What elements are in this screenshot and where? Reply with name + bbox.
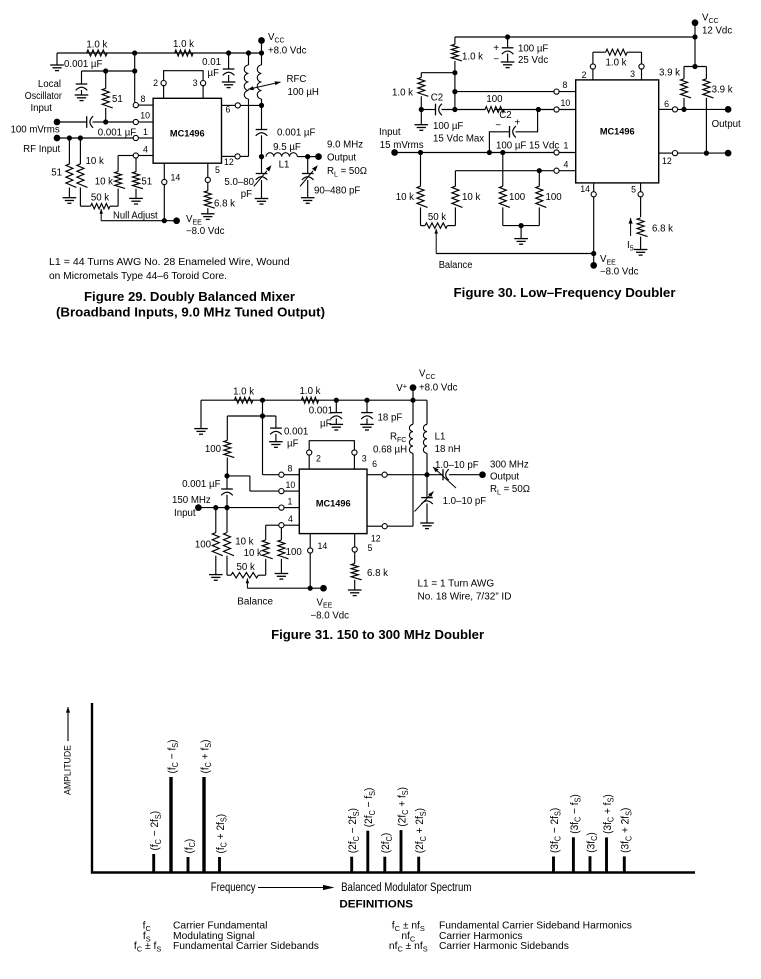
- node (fig31 rail C): [364, 398, 369, 403]
- svg-text:1.0 k: 1.0 k: [233, 387, 254, 398]
- ground (6.8k fig31): [348, 590, 362, 596]
- label RF Input: [23, 144, 60, 155]
- capacitor 100uF 25Vdc: [493, 37, 548, 68]
- svg-text:12: 12: [662, 156, 672, 166]
- node (3.9k b bottom): [704, 151, 709, 156]
- svg-text:1.0 k: 1.0 k: [173, 39, 194, 50]
- terminal: output bottom fig30: [725, 150, 732, 157]
- wire: input line fig31: [198, 507, 278, 509]
- svg-text:nfC ± nfS: nfC ± nfS: [389, 941, 428, 953]
- node (fig31 rail A): [260, 398, 265, 403]
- svg-text:(2fC + fS): (2fC + fS): [396, 787, 410, 827]
- label Balance fig31: [237, 597, 273, 608]
- resistor 1.0k (fig30 left): [392, 73, 428, 110]
- svg-text:5: 5: [631, 185, 636, 195]
- wire: 100 to pin10: [495, 109, 554, 111]
- svg-text:RFC: RFC: [390, 432, 406, 444]
- wire: LO input line: [57, 121, 106, 123]
- wire: pin4 branch fig31: [266, 524, 279, 526]
- pin 4 (Fig30): [554, 160, 576, 174]
- resistor 10k (null network): [95, 156, 125, 207]
- svg-text:9.5 µF: 9.5 µF: [273, 142, 301, 153]
- svg-text:L1: L1: [435, 432, 446, 443]
- definition nfC+nfS: [389, 941, 569, 953]
- inductor RFC right winding: [257, 53, 261, 105]
- ground (C2 left): [415, 110, 429, 131]
- node (fig30 pin10 rail B): [452, 107, 457, 112]
- node (pin14/VEE junction): [162, 218, 167, 223]
- node (fig31 in 100 tap): [213, 505, 218, 510]
- svg-text:−8.0 Vdc: −8.0 Vdc: [311, 610, 350, 621]
- svg-text:MC1496: MC1496: [316, 499, 351, 509]
- pin 3 (Fig29): [193, 78, 206, 88]
- wire: LO bypass rail: [82, 70, 135, 72]
- pin 3 (Fig31): [352, 450, 367, 469]
- svg-text:5: 5: [215, 165, 220, 175]
- svg-text:V+: V+: [396, 381, 407, 394]
- chart y-axis: [91, 703, 93, 874]
- node (C2b right junction): [536, 107, 541, 112]
- capacitor C2 100uF: [421, 93, 484, 145]
- svg-text:1: 1: [143, 127, 148, 137]
- label Balanced Modulator Spectrum: [341, 882, 471, 894]
- wire: pin2 stub: [163, 86, 165, 99]
- label Local Oscillator Input: [25, 79, 63, 114]
- svg-text:2: 2: [582, 70, 587, 80]
- wire: pin8 drop from rail: [134, 53, 136, 103]
- definition fC+nfS: [392, 921, 632, 933]
- resistor 6.8k (Fig30): [637, 218, 673, 250]
- svg-text:L1 = 1 Turn AWG: L1 = 1 Turn AWG: [418, 579, 495, 590]
- svg-text:VCC: VCC: [268, 32, 285, 44]
- caption Figure 30: [454, 286, 676, 300]
- node (fig31 C top): [224, 473, 229, 478]
- wire: pin8 line fig30: [455, 91, 554, 93]
- svg-text:6.8 k: 6.8 k: [652, 224, 673, 235]
- wire: pin8 riser fig31: [263, 416, 279, 475]
- note L1 fig29: [49, 257, 290, 282]
- svg-text:1: 1: [288, 497, 293, 507]
- node (C2 left junction): [419, 107, 424, 112]
- capacitor 0.001uF (LO coupling): [87, 116, 137, 138]
- svg-text:1.0 k: 1.0 k: [392, 88, 413, 99]
- svg-text:0.001 µF: 0.001 µF: [277, 128, 316, 139]
- node (fig31 rail2): [260, 413, 265, 418]
- svg-text:100: 100: [486, 94, 503, 105]
- svg-text:0.001: 0.001: [284, 427, 308, 438]
- caption Figure 31: [271, 628, 484, 642]
- node (pin4 100 tap): [537, 168, 542, 173]
- svg-text:(3fC − 2fS): (3fC − 2fS): [549, 808, 563, 853]
- pin 10 (Fig30): [554, 98, 576, 112]
- svg-text:−: −: [495, 120, 501, 131]
- spectral line (3fC − fS): [568, 794, 582, 872]
- inductor RFC (fig31): [373, 400, 413, 526]
- spectral line (3fC − 2fS): [549, 808, 563, 873]
- heading DEFINITIONS: [339, 899, 413, 911]
- capacitor 0.001uF (LO bypass): [64, 59, 103, 101]
- svg-text:Figure 31. 150 to 300 MHz Doub: Figure 31. 150 to 300 MHz Doubler: [271, 628, 484, 642]
- svg-text:100: 100: [546, 192, 563, 203]
- spectral line (fC − 2fS): [149, 811, 163, 873]
- resistor 100 (fig30 a): [499, 153, 525, 226]
- svg-text:14: 14: [171, 173, 181, 183]
- wire: pin4 left branch: [118, 155, 133, 157]
- svg-text:0.001 µF: 0.001 µF: [98, 128, 137, 139]
- svg-text:Output: Output: [712, 119, 741, 130]
- label Output fig30: [712, 119, 741, 130]
- svg-text:0.001 µF: 0.001 µF: [182, 479, 221, 490]
- wire: 3.9k top bar: [684, 66, 706, 68]
- svg-text:100: 100: [509, 192, 526, 203]
- svg-text:I5: I5: [627, 240, 634, 252]
- pin 6 (Fig29): [222, 103, 262, 115]
- resistor R 1.0k (Fig29 left, top rail): [86, 40, 107, 57]
- pin 2 (Fig31): [307, 450, 321, 469]
- svg-text:µF: µF: [287, 439, 299, 450]
- svg-text:−: −: [493, 54, 499, 65]
- svg-text:2: 2: [153, 78, 158, 88]
- ground (fig31 pin4 100): [275, 574, 289, 580]
- svg-text:6: 6: [664, 99, 669, 109]
- svg-text:10: 10: [140, 111, 150, 121]
- svg-text:(2fC − fS): (2fC − fS): [363, 788, 377, 828]
- svg-text:10 k: 10 k: [86, 156, 104, 167]
- pin 14 (Fig29): [162, 163, 181, 221]
- svg-text:100 µH: 100 µH: [288, 87, 319, 98]
- node (100s gnd node): [519, 223, 524, 228]
- svg-text:(3fC + fS): (3fC + fS): [602, 794, 616, 834]
- node (VEE junction fig30): [591, 251, 596, 256]
- variable capacitor 90-480pF: [300, 157, 360, 204]
- node (fig30 left A): [452, 70, 457, 75]
- wire: pins 2-3 bridge: [164, 71, 204, 86]
- pin 12 (Fig30): [659, 151, 728, 167]
- svg-text:DEFINITIONS: DEFINITIONS: [339, 899, 413, 911]
- svg-text:4: 4: [564, 160, 569, 170]
- svg-text:No. 18 Wire, 7/32” ID: No. 18 Wire, 7/32” ID: [418, 592, 512, 603]
- svg-text:Input: Input: [30, 103, 52, 114]
- variable capacitor 5.0-80pF: [224, 157, 271, 205]
- label 300 MHz Output fig31: [490, 460, 530, 497]
- inductor L1 (Fig29): [266, 142, 308, 171]
- op-amp U2 MC1496 (Fig30): [576, 80, 659, 183]
- pin 10 (Fig31): [279, 480, 300, 494]
- resistor 100 (fig31 input): [195, 508, 223, 575]
- svg-text:+8.0 Vdc: +8.0 Vdc: [419, 383, 458, 394]
- svg-text:Frequency: Frequency: [211, 882, 256, 894]
- svg-text:100 µF: 100 µF: [433, 121, 463, 132]
- pin 6 (Fig30): [659, 99, 728, 112]
- svg-text:51: 51: [112, 94, 123, 105]
- wire: pins 2-3 bridge fig30: [593, 52, 642, 64]
- note L1 fig31: [418, 579, 512, 603]
- resistor 10k (fig31 a): [224, 508, 254, 576]
- spectral line (2fC): [380, 833, 394, 873]
- resistor 10k (fig30 second): [452, 171, 481, 226]
- resistor 100 (fig31 top): [205, 416, 234, 476]
- svg-text:100: 100: [286, 547, 303, 558]
- pin 4 (Fig31): [279, 514, 300, 528]
- node (LO line junction): [103, 119, 108, 124]
- resistor 51 (RF shunt): [51, 138, 76, 198]
- svg-text:AMPLITUDE: AMPLITUDE: [63, 745, 73, 795]
- svg-text:C2: C2: [431, 93, 443, 104]
- svg-text:(Broadband Inputs, 9.0 MHz Tun: (Broadband Inputs, 9.0 MHz Tuned Output): [56, 306, 325, 320]
- resistor 100 (fig30 b): [536, 171, 562, 226]
- node (fig30 pin8 T): [452, 89, 457, 94]
- terminal: 150MHz input: [195, 504, 202, 511]
- RFC variable arrow: [248, 81, 281, 90]
- ground (RF 51): [63, 198, 77, 204]
- potentiometer 50k Null Adjust: [80, 192, 118, 209]
- node (VEE junction fig31): [308, 586, 313, 591]
- wire: balance to VEE fig31: [247, 587, 310, 589]
- wire: fig30 left branch: [421, 72, 455, 74]
- svg-text:(2fC + 2fS): (2fC + 2fS): [414, 808, 428, 853]
- node (100uF tap fig30): [505, 34, 510, 39]
- capacitor 0.001uF (fig31 mid): [269, 416, 308, 450]
- svg-text:Input: Input: [174, 508, 196, 519]
- svg-text:1.0 k: 1.0 k: [86, 40, 107, 51]
- resistor 51 (LO input): [102, 71, 123, 122]
- spectral line (fC + 2fS): [215, 814, 229, 873]
- label Frequency axis: [211, 882, 335, 894]
- svg-text:Balanced Modulator Spectrum: Balanced Modulator Spectrum: [341, 882, 471, 894]
- terminal: VEE fig30: [590, 254, 638, 278]
- svg-text:−8.0 Vdc: −8.0 Vdc: [600, 267, 639, 278]
- node (3.9k VCC node): [692, 64, 697, 69]
- svg-text:4: 4: [143, 144, 148, 154]
- svg-text:1: 1: [564, 141, 569, 151]
- resistor 3.9k (fig30 a): [659, 67, 691, 110]
- terminal: 9.0MHz output: [308, 153, 322, 160]
- capacitor 0.001uF (output): [256, 105, 316, 156]
- label 100 mVrms: [11, 125, 60, 136]
- pin 14 (Fig31): [308, 534, 328, 589]
- svg-text:0.01: 0.01: [202, 57, 221, 68]
- capacitor 0.001uF (fig31 input): [182, 476, 233, 508]
- svg-text:(3fC − fS): (3fC − fS): [568, 794, 582, 834]
- amplitude arrow: [66, 707, 70, 741]
- svg-text:µF: µF: [320, 419, 332, 430]
- resistor 10k (fig30 input): [396, 153, 428, 226]
- terminal: VEE fig31: [310, 585, 349, 621]
- pin 5 (Fig29): [205, 163, 220, 182]
- pot wiper arrow fig30: [434, 229, 438, 254]
- node (VCC tap): [259, 50, 264, 55]
- svg-text:0.68 µH: 0.68 µH: [373, 445, 407, 456]
- capacitor 18pF (fig31 rail): [360, 400, 402, 430]
- wire: Fig29 top VCC rail: [57, 52, 262, 54]
- caption Figure 29: [56, 290, 325, 320]
- pot wiper arrow: [99, 209, 158, 222]
- svg-text:150 MHz: 150 MHz: [172, 495, 211, 506]
- svg-text:0.001: 0.001: [309, 406, 333, 417]
- svg-text:10 k: 10 k: [462, 192, 480, 203]
- resistor R 1.0k (Fig29 second, top rail): [173, 39, 194, 56]
- label 150 MHz Input: [172, 495, 211, 519]
- inductor RFC left winding: [244, 53, 248, 156]
- svg-text:+8.0 Vdc: +8.0 Vdc: [268, 46, 307, 57]
- svg-text:1.0 k: 1.0 k: [605, 58, 626, 69]
- svg-text:VEE: VEE: [186, 214, 202, 226]
- definition fC: [143, 921, 268, 933]
- terminal: LO input: [54, 119, 61, 126]
- pin 12 (Fig29): [222, 154, 249, 167]
- svg-text:+: +: [493, 43, 499, 54]
- svg-text:100 µF 15 Vdc: 100 µF 15 Vdc: [496, 141, 559, 152]
- svg-text:50 k: 50 k: [91, 192, 109, 203]
- svg-text:fC ± fS: fC ± fS: [134, 941, 161, 953]
- svg-text:(3fC): (3fC): [585, 832, 599, 852]
- spectral line (fC): [183, 839, 197, 873]
- svg-text:50 k: 50 k: [237, 562, 255, 573]
- op-amp U3 MC1496 (Fig31): [299, 469, 367, 533]
- resistor 3.9k (fig30 b): [703, 67, 733, 154]
- svg-text:14: 14: [318, 541, 328, 551]
- wire: balance to VEE fig30: [436, 253, 594, 255]
- definition fC+fS: [134, 941, 319, 953]
- pin 5 (Fig30): [631, 183, 643, 217]
- svg-text:10 k: 10 k: [235, 537, 253, 548]
- svg-text:−8.0 Vdc: −8.0 Vdc: [186, 226, 225, 237]
- svg-text:12: 12: [224, 157, 234, 167]
- wire: Fig31 top rail: [201, 399, 427, 401]
- svg-text:6.8 k: 6.8 k: [367, 568, 388, 579]
- svg-text:VCC: VCC: [419, 369, 436, 381]
- wire: VEE rail fig29: [101, 220, 176, 222]
- op-amp U1 MC1496 (Fig29): [153, 98, 221, 163]
- svg-text:Carrier Harmonic Sidebands: Carrier Harmonic Sidebands: [439, 941, 569, 952]
- node (top rail junction A): [132, 50, 137, 55]
- svg-text:MC1496: MC1496: [170, 129, 205, 139]
- node (3.9k a bottom): [681, 107, 686, 112]
- resistor 1.0k (fig31 a): [233, 387, 254, 404]
- svg-text:6: 6: [372, 459, 377, 469]
- node (input 10k tap): [418, 150, 423, 155]
- spectral line (3fC + fS): [602, 794, 616, 872]
- spectral line (fC + fS): [199, 740, 213, 873]
- svg-text:VEE: VEE: [600, 254, 616, 266]
- svg-text:8: 8: [288, 464, 293, 474]
- svg-text:3.9 k: 3.9 k: [659, 68, 680, 79]
- spectral line (fC − fS): [166, 740, 180, 873]
- pin 8 (Fig30): [554, 80, 576, 94]
- terminal: output top fig30: [725, 106, 732, 113]
- label Input 15mVrms: [379, 127, 424, 151]
- svg-text:3: 3: [630, 69, 635, 79]
- svg-text:(fC + fS): (fC + fS): [199, 740, 213, 774]
- terminal: RF input: [54, 135, 61, 142]
- pin 4 line fig30: [455, 170, 554, 172]
- terminal: VEE fig29: [173, 214, 224, 237]
- svg-text:3: 3: [193, 78, 198, 88]
- svg-text:10: 10: [286, 480, 296, 490]
- wire: LO to pin10: [106, 121, 134, 123]
- svg-text:(2fC − 2fS): (2fC − 2fS): [347, 808, 361, 853]
- resistor 10k (RF): [77, 138, 104, 206]
- svg-text:8: 8: [563, 80, 568, 90]
- definition nfC: [401, 931, 522, 943]
- svg-text:(2fC): (2fC): [380, 833, 394, 853]
- ground (fig31 input 100): [209, 575, 223, 581]
- svg-text:Figure 30. Low–Frequency Doubl: Figure 30. Low–Frequency Doubler: [454, 286, 676, 300]
- node (fig31 rail V+): [410, 398, 415, 403]
- node (51 ohm top): [103, 68, 108, 73]
- svg-text:Figure 29. Doubly Balanced Mix: Figure 29. Doubly Balanced Mixer: [84, 290, 295, 304]
- svg-text:RF Input: RF Input: [23, 144, 60, 155]
- node (fig31 rail B): [334, 398, 339, 403]
- pin 8 (Fig29): [133, 94, 153, 108]
- wire: fig31 second rail: [227, 400, 276, 416]
- wire: input line fig30: [395, 152, 554, 154]
- node (VCC drop fig30): [692, 34, 697, 39]
- capacitor 0.01uF (Fig29 bypass): [202, 53, 235, 88]
- svg-text:15 mVrms: 15 mVrms: [380, 140, 424, 151]
- resistor 1.0k (fig30 top): [451, 37, 483, 110]
- svg-text:(3fC + 2fS): (3fC + 2fS): [619, 808, 633, 853]
- svg-text:18 pF: 18 pF: [378, 413, 403, 424]
- node (input C2 tap): [487, 150, 492, 155]
- node (RF junction 2): [78, 135, 83, 140]
- svg-text:100 mVrms: 100 mVrms: [11, 125, 60, 136]
- svg-text:Output: Output: [327, 153, 356, 164]
- resistor 100 (fig31 pin4): [278, 528, 302, 574]
- svg-text:10: 10: [561, 98, 571, 108]
- svg-text:10 k: 10 k: [95, 176, 113, 187]
- resistor 1.0k (fig31 b): [299, 386, 320, 403]
- svg-text:100: 100: [195, 540, 212, 551]
- VCC terminal fig30: [692, 13, 733, 38]
- svg-text:300 MHz: 300 MHz: [490, 460, 529, 471]
- svg-text:14: 14: [580, 184, 590, 194]
- svg-text:VCC: VCC: [702, 13, 719, 25]
- pin 3 (Fig30): [630, 64, 644, 80]
- pin 4 (Fig29): [133, 144, 153, 158]
- svg-text:3: 3: [362, 454, 367, 464]
- node (RF junction 1): [67, 135, 72, 140]
- svg-text:51: 51: [141, 177, 152, 188]
- svg-text:10 k: 10 k: [244, 548, 262, 559]
- svg-text:51: 51: [51, 168, 62, 179]
- svg-text:3.9 k: 3.9 k: [712, 85, 733, 96]
- svg-text:90–480 pF: 90–480 pF: [314, 186, 360, 197]
- svg-text:Output: Output: [490, 472, 519, 483]
- pin 8 (Fig31): [279, 464, 300, 478]
- wire: pin3 stub: [202, 86, 204, 99]
- svg-text:12: 12: [371, 534, 381, 544]
- svg-text:+: +: [515, 118, 521, 129]
- svg-text:Balance: Balance: [237, 597, 273, 608]
- svg-text:1.0–10 pF: 1.0–10 pF: [435, 460, 479, 471]
- label 9.0 MHz Output RL=50: [327, 140, 367, 179]
- svg-text:1.0 k: 1.0 k: [299, 386, 320, 397]
- inductor L1 (fig31): [423, 400, 460, 475]
- wire: VCC drop to 3.9k: [694, 37, 696, 67]
- ground (6.8k fig30): [634, 250, 648, 256]
- svg-text:50 k: 50 k: [428, 212, 446, 223]
- svg-text:0.001 µF: 0.001 µF: [64, 59, 103, 70]
- svg-text:(fC + 2fS): (fC + 2fS): [215, 814, 229, 854]
- label Balance fig30: [439, 260, 473, 271]
- arrow I5: [627, 218, 634, 252]
- svg-text:8: 8: [141, 94, 146, 104]
- capacitor C2 100uF 15Vdc: [489, 110, 559, 153]
- wire: pins 2-3 bridge fig31: [309, 441, 354, 455]
- node (L1 bottom node): [424, 472, 429, 477]
- variable capacitor 1.0-10pF series: [387, 460, 482, 488]
